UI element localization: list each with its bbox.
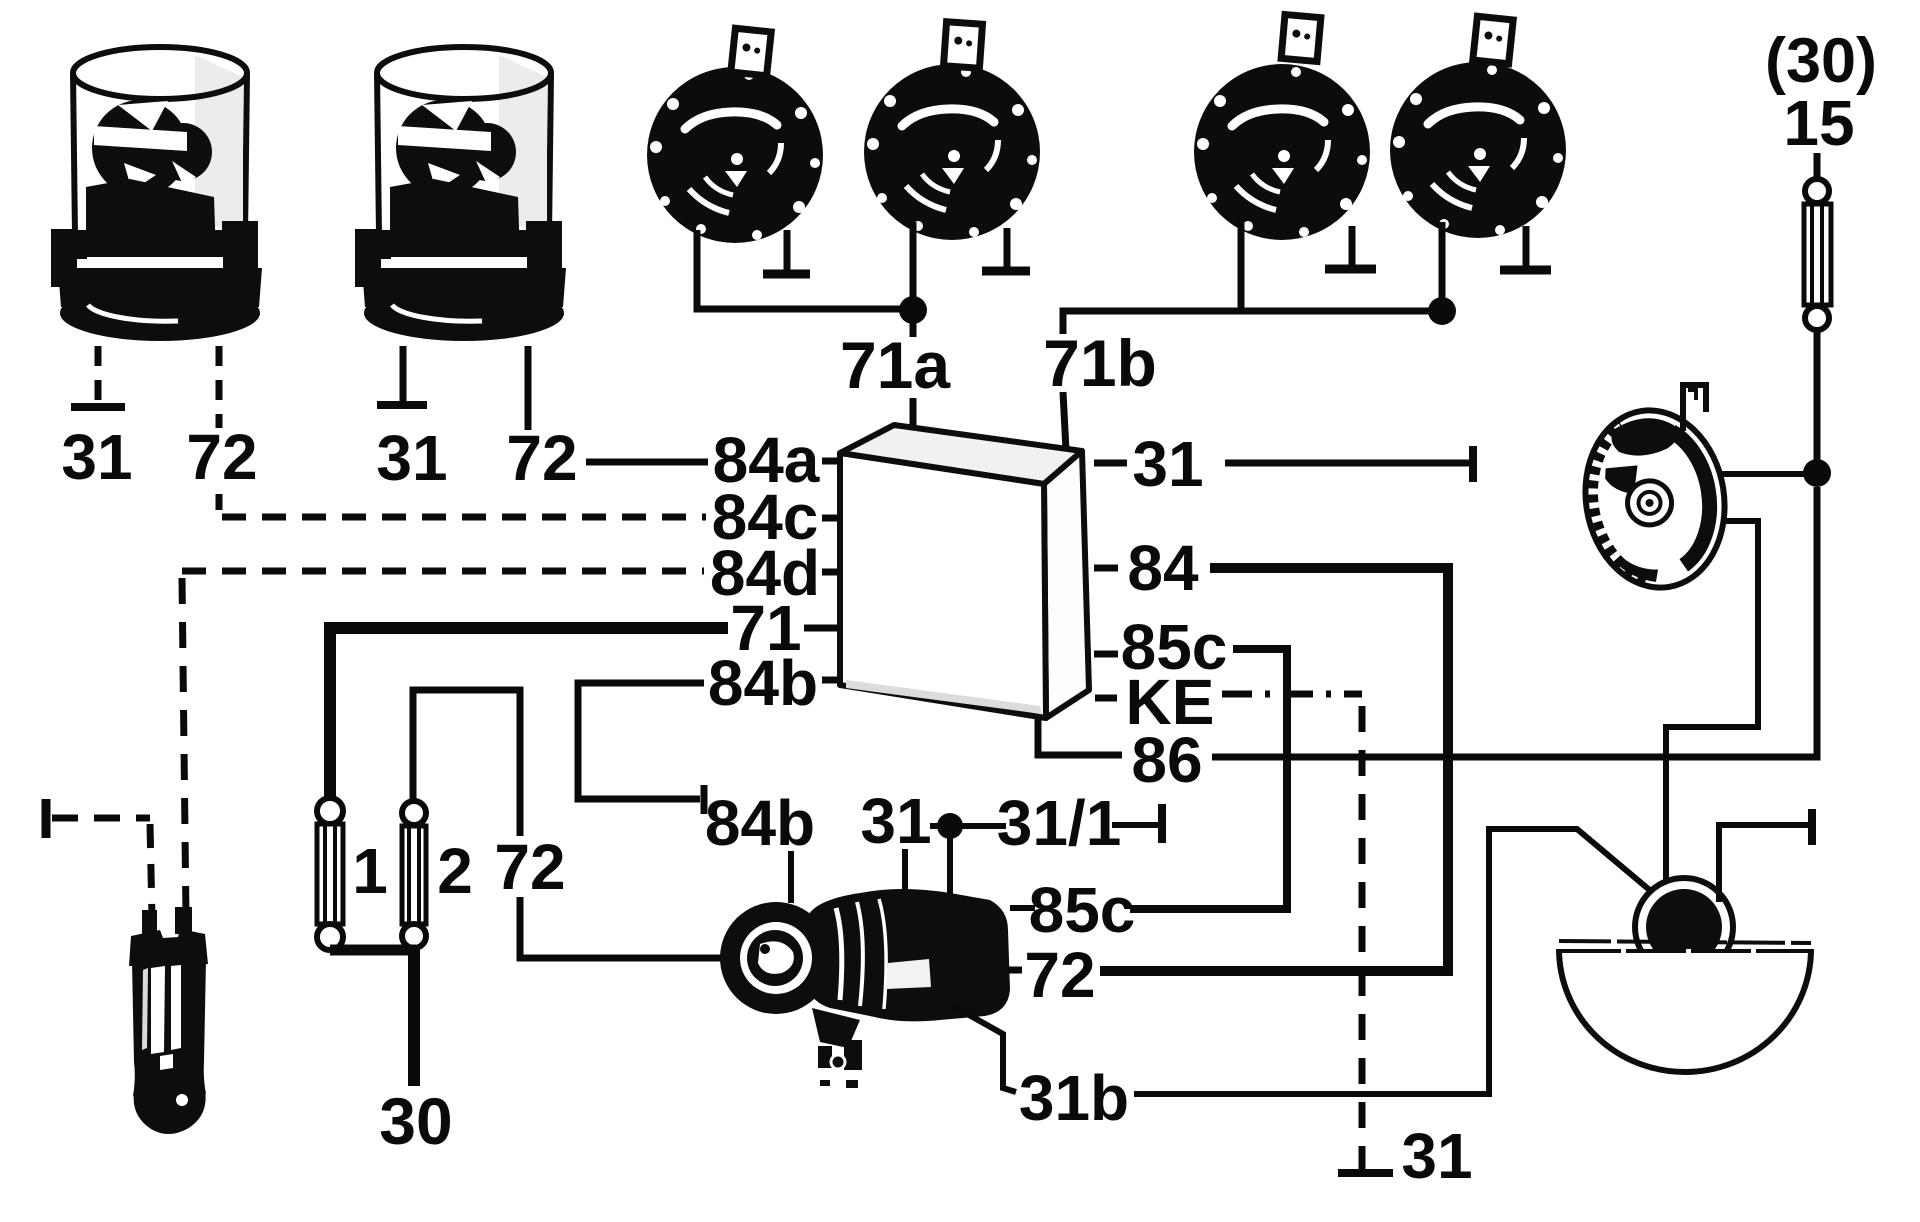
node 71b junction (1428, 297, 1456, 325)
label 86 (1131, 724, 1202, 796)
ground symbol 31 (beacon E2) (377, 401, 427, 409)
ground symbol 31 (beacon E1) (71, 403, 125, 411)
beacon lamp E2 (right rotating beacon) (355, 47, 566, 341)
label 85c (relay right) (1121, 611, 1228, 683)
wire 85c label to switch (1010, 905, 1035, 911)
wire E2 terminal 72 lead (525, 346, 532, 430)
wire KE dash-dot (1222, 691, 1362, 698)
label 71 (730, 592, 801, 664)
ground symbol (horn B2) (982, 267, 1030, 276)
wire 72 heavy to 84 drop (1100, 966, 1453, 976)
fuse F1 (317, 798, 343, 950)
label 85c (ignition switch) (1029, 874, 1136, 946)
label 72 (beacon E1) (186, 421, 257, 493)
wire B2 ground lead (1004, 228, 1011, 268)
horn button S2 (knob) (1635, 878, 1733, 976)
wire 72 to ignition switch (520, 897, 733, 958)
wire E1 terminal 31 lead (dashed) (95, 346, 102, 402)
label 84a (713, 424, 820, 496)
wire 84 heavy to switch 72 (1210, 568, 1448, 967)
label 31 (beacon E2) (376, 422, 447, 494)
svg-text:1: 1 (352, 835, 388, 907)
wire B3 ground lead (1349, 226, 1356, 267)
svg-text:71b: 71b (1043, 326, 1157, 400)
connector end (horn button) (1808, 809, 1816, 845)
wire 84a from beacon E2 (586, 459, 708, 466)
label 30 (379, 1084, 452, 1158)
wire 84d dashed bus to plug (182, 568, 704, 575)
svg-text:31b: 31b (1019, 1062, 1129, 1134)
svg-text:31: 31 (1132, 428, 1203, 500)
wire B4 ground lead (1523, 226, 1530, 268)
label KE (1126, 666, 1215, 738)
connector end 31 (1469, 446, 1477, 482)
svg-text:71a: 71a (840, 328, 951, 402)
label 31 (bottom right ground) (1401, 1120, 1472, 1192)
pin 84 stub (1094, 565, 1118, 572)
svg-text:31: 31 (61, 421, 132, 493)
wire B1 lead to 71a bus (697, 230, 900, 309)
horn button bowl (1559, 941, 1811, 1072)
horn B1 (647, 28, 823, 243)
label 31/1 (997, 787, 1122, 859)
wire 72 stub from switch (1008, 967, 1022, 974)
wire 84b label to switch (788, 851, 794, 903)
label 31b (1019, 1062, 1129, 1134)
pin 84b stub (822, 677, 838, 684)
wire B1 ground lead (784, 230, 791, 272)
label 31 (beacon E1) (61, 421, 132, 493)
label 72 (fuse feed) (494, 831, 565, 903)
svg-text:31: 31 (860, 785, 931, 857)
wire KE dashed down to ground (1359, 706, 1366, 1168)
connector plug X (hand lamp socket plug) (129, 907, 208, 1134)
pin 84a stub (822, 458, 839, 465)
fuse F3 (supply fuse) (1804, 179, 1831, 330)
pin KE stub (1095, 695, 1117, 702)
svg-text:72: 72 (506, 422, 577, 494)
label 71a (840, 328, 951, 402)
label (30) supply (1765, 26, 1877, 96)
wire E2 terminal 31 lead (400, 346, 407, 402)
connector end 31/1 (1158, 804, 1166, 843)
svg-text:15: 15 (1783, 87, 1854, 159)
wire 15 to fuse (1814, 153, 1821, 179)
svg-text:84b: 84b (708, 647, 818, 719)
svg-text:84: 84 (1127, 532, 1199, 604)
connector end (hand lamp feed) (42, 799, 51, 838)
label 72 (beacon E2) (506, 422, 577, 494)
wire 71 heavy line to fuse 1 (330, 628, 728, 806)
ignition switch S (steering lock) (720, 889, 1010, 1088)
wire fuse to node (1814, 330, 1821, 473)
label 84b (relay) (708, 647, 818, 719)
horn B5 tab (1683, 385, 1706, 431)
wire 84d dashed down to plug (right prong) (182, 578, 186, 918)
connector end 84b (701, 785, 708, 814)
wire 84b upper branch (578, 683, 704, 799)
label 31 (ignition switch) (860, 785, 931, 857)
wire 31b to horn button (1134, 829, 1652, 1094)
wire 84c dashed bus from beacon E1 (222, 514, 706, 521)
horn B3 (1194, 15, 1370, 240)
svg-text:30: 30 (379, 1084, 452, 1158)
pin 31 stub (1094, 460, 1127, 467)
svg-text:31: 31 (376, 422, 447, 494)
pin 84c stub (822, 515, 839, 522)
ground symbol 31 (KE line) (1338, 1146, 1393, 1173)
svg-text:86: 86 (1131, 724, 1202, 796)
fuse F2 (402, 801, 426, 948)
horn B4 (1390, 16, 1566, 238)
node 71a junction (899, 296, 927, 337)
wire node to 31/1 (962, 823, 1006, 829)
wire E1 terminal 72 lead (dashed, to 84c) (216, 346, 223, 516)
pin 84d stub (822, 569, 839, 576)
wire 71a to relay top (910, 398, 917, 428)
node supply junction (1803, 459, 1831, 487)
wire B3 lead to 71b bus (1238, 220, 1245, 311)
ground symbol (horn B3) (1325, 265, 1376, 274)
wire 30 heavy feed (408, 950, 420, 1086)
label 84 (relay right) (1127, 532, 1199, 604)
wire fuse F2 to 72 (413, 690, 520, 836)
svg-text:84b: 84b (705, 787, 815, 859)
ground symbol (horn B4) (1500, 266, 1551, 275)
svg-text:85c: 85c (1029, 874, 1136, 946)
wire dashed to plug (left prong) (52, 818, 152, 918)
label fuse 2 (437, 835, 473, 907)
relay unit J (flasher relay box) (840, 425, 1089, 718)
label 15 supply (1783, 87, 1854, 159)
wire 86 from relay underside (1038, 716, 1122, 755)
wire 86 to supply node (1212, 487, 1817, 757)
wire B5 to supply node (1722, 471, 1810, 477)
node 31/31-1 junction (930, 813, 963, 903)
wire B2 lead to 71a node (910, 222, 917, 309)
wire horn button to connector end (1719, 825, 1808, 902)
wire 31b from switch (953, 1006, 1016, 1092)
beacon lamp E1 (left rotating beacon) (51, 47, 262, 341)
wire 31 label to switch (902, 849, 908, 903)
svg-text:31/1: 31/1 (997, 787, 1122, 859)
label 72 (ignition switch) (1024, 939, 1095, 1011)
svg-text:72: 72 (1024, 939, 1095, 1011)
svg-text:72: 72 (186, 421, 257, 493)
svg-text:31: 31 (1401, 1120, 1472, 1192)
wire fuse bottoms link (330, 945, 416, 956)
wire 31 to connector end (1225, 460, 1470, 467)
wire B4 lead to 71b node (1439, 222, 1446, 311)
label 84b (ignition switch) (705, 787, 815, 859)
label 84c (712, 481, 819, 553)
pin 85c stub (1094, 651, 1118, 658)
horn B2 (864, 22, 1040, 240)
svg-text:(30): (30) (1765, 26, 1877, 96)
label 84d (710, 537, 820, 609)
label 31 (relay right) (1132, 428, 1203, 500)
wire B5 to horn button (1666, 521, 1758, 885)
horn B5 (disc horn) (1573, 400, 1737, 597)
wire 71b bus (1063, 311, 1429, 334)
pin 71 stub (804, 625, 839, 632)
ground symbol (horn B1) (763, 270, 810, 279)
wire 31/1 to connector end (1112, 822, 1159, 828)
wire 85c down to switch (1130, 649, 1287, 909)
label 71b (1043, 326, 1157, 400)
label fuse 1 (352, 835, 388, 907)
svg-text:2: 2 (437, 835, 473, 907)
svg-text:72: 72 (494, 831, 565, 903)
wire 71b to relay top (1063, 392, 1066, 450)
